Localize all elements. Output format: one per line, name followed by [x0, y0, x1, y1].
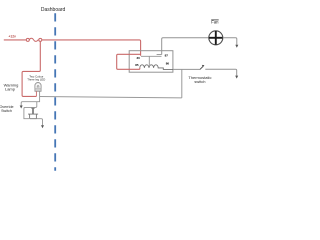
relay armature link: [148, 56, 150, 65]
wire junction down to LED line: [181, 69, 183, 98]
ground (fan): [235, 45, 238, 48]
wire LED common down to ground: [21, 97, 39, 106]
fuse F1: [26, 38, 42, 41]
ground (warning lamp common): [20, 106, 23, 109]
ground (override switch): [41, 125, 44, 128]
relay K1 body: [129, 51, 173, 72]
override switch S1 (push switch): [28, 108, 38, 119]
wire LED node to override switch: [24, 102, 37, 119]
svg-text:30: 30: [137, 56, 141, 60]
svg-text:+12v: +12v: [8, 34, 16, 38]
wire thermostatic switch to ground: [205, 69, 236, 76]
wire relay pin 87 to fan: [162, 38, 209, 55]
ground (thermostatic switch): [235, 76, 238, 79]
svg-text:86: 86: [166, 62, 170, 66]
relay coil: [140, 65, 173, 70]
wire fuse output down to warning lamp feed: [22, 41, 40, 96]
svg-text:Dashboard: Dashboard: [41, 7, 66, 13]
wire +12v rail to relay pin 30: [42, 40, 141, 56]
relay pin 87 terminal tick: [157, 54, 162, 56]
fan motor M1: [209, 31, 223, 45]
LED leg (to coil line / switch): [39, 91, 41, 96]
wire +12v rail left segment: [4, 39, 27, 41]
warning lamp LED1 (two colour three leg LED): [35, 83, 41, 97]
relay contact bar (pin 30 contact): [141, 55, 162, 57]
svg-text:Switch: Switch: [1, 109, 12, 113]
dashboard boundary (blue dashed line): [54, 13, 56, 171]
wire LED to relay coil line (long grey wire): [40, 97, 182, 98]
svg-text:Three leg LED: Three leg LED: [27, 77, 45, 81]
svg-text:switch: switch: [194, 79, 205, 84]
wire fan to ground: [223, 38, 237, 45]
LED leg (anode, red feed): [35, 91, 37, 96]
wire relay pin 86 to thermostatic switch: [173, 68, 200, 70]
wire relay pin 85 feed (red from +12v): [117, 54, 141, 69]
svg-text:85: 85: [135, 63, 139, 67]
wire override switch to ground: [36, 119, 42, 126]
thermostatic switch TH1: [200, 65, 205, 70]
svg-text:87: 87: [165, 54, 169, 58]
svg-text:Lamp: Lamp: [5, 87, 16, 92]
